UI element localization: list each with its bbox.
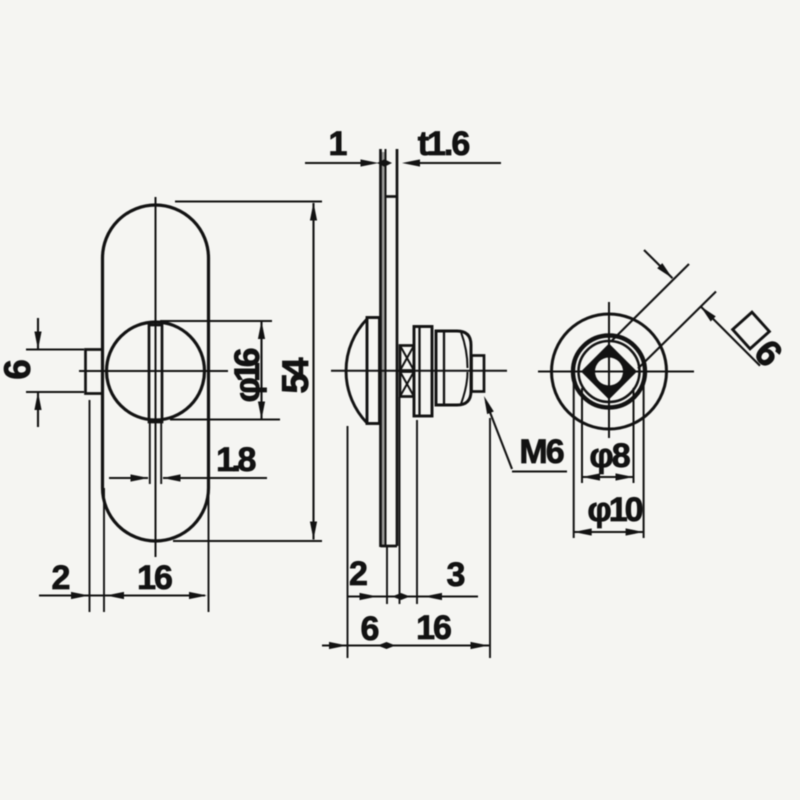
svg-text:6: 6 (0, 360, 38, 380)
svg-text:1: 1 (329, 125, 347, 163)
svg-text:φ8: φ8 (589, 437, 629, 475)
svg-text:2: 2 (349, 555, 367, 593)
svg-text:6: 6 (361, 610, 379, 648)
svg-text:54: 54 (275, 357, 316, 394)
svg-text:φ16: φ16 (227, 348, 267, 402)
svg-text:3: 3 (447, 556, 465, 594)
svg-text:t1.6: t1.6 (418, 125, 470, 163)
svg-text:6: 6 (746, 332, 790, 374)
svg-text:φ10: φ10 (587, 491, 642, 529)
svg-text:M6: M6 (519, 433, 563, 471)
svg-text:1.8: 1.8 (216, 441, 255, 479)
svg-text:2: 2 (52, 559, 70, 597)
svg-text:16: 16 (137, 559, 172, 597)
svg-text:16: 16 (416, 609, 451, 647)
